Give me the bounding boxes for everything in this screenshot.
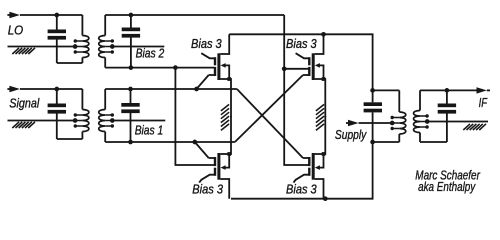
transistor Q3 (lower-left dual-gate MOSFET) bbox=[201, 116, 231, 199]
wire T3 secondary vertical leads bbox=[419, 90, 421, 142]
svg-text:aka Enthalpy: aka Enthalpy bbox=[418, 179, 476, 194]
node C4 bottom on Signal- wire bbox=[128, 140, 133, 145]
svg-text:IF: IF bbox=[479, 96, 488, 110]
capacitor C5 (IF primary tank) bbox=[364, 102, 382, 112]
wire C4 bottom lead crossing Bias 1 wire bbox=[130, 113, 132, 142]
Signal input terminal arrow bbox=[7, 86, 20, 92]
wire Signal input to transformer T2 primary top bbox=[20, 88, 82, 90]
transformer T1 primary winding bbox=[74, 36, 89, 58]
capacitor C1 (LO tank) bbox=[48, 30, 66, 40]
Supply input terminal arrow bbox=[346, 120, 359, 126]
capacitor C4 (Bias 1 / Signal secondary tank) bbox=[121, 103, 139, 113]
ground hatching (IF side) bbox=[463, 124, 486, 130]
ground wire (IF side) bbox=[427, 121, 488, 123]
ground wire (LO side) bbox=[8, 46, 76, 48]
node Signal input / C3 junction bbox=[54, 87, 59, 92]
capacitor C2 (Bias 2 / LO secondary tank) bbox=[122, 28, 140, 38]
node Signal- branch to Q3 gate2 bbox=[192, 140, 197, 145]
node T1 secondary center tap bbox=[110, 44, 115, 49]
wire C6 top lead bbox=[446, 90, 448, 103]
wire IF tank bottom wrap bbox=[373, 141, 400, 143]
node Q4 source on bottom bus bbox=[323, 196, 328, 201]
wire C2 bottom lead crossing Bias 2 wire bbox=[130, 38, 132, 68]
transistor Q4 (lower-right dual-gate MOSFET) bbox=[296, 116, 326, 199]
wire C2 top lead bbox=[130, 15, 132, 28]
LO input terminal arrow bbox=[7, 12, 20, 18]
wire LO tank bottom wrap bbox=[57, 62, 83, 64]
svg-text:Bias 3: Bias 3 bbox=[192, 183, 223, 197]
node T2 secondary center tap bbox=[110, 118, 115, 123]
wire C1 top lead bbox=[56, 15, 58, 30]
wire T2 secondary vertical leads bbox=[104, 89, 106, 142]
capacitor C3 (Signal tank) bbox=[48, 104, 66, 114]
svg-text:Bias 1: Bias 1 bbox=[135, 124, 164, 138]
wire Signal- to cross node bbox=[105, 141, 235, 143]
wire Q1 gate2 diagonal to Signal+ bbox=[197, 75, 209, 89]
transformer T3 primary winding bbox=[391, 112, 406, 134]
node C2 bottom on LO- wire bbox=[129, 65, 134, 70]
wire LO- to Q1 gate1 bbox=[105, 67, 214, 69]
wire LO input to transformer T1 primary top bbox=[20, 14, 82, 16]
wire T2 primary vertical leads bbox=[81, 89, 83, 139]
transistor Q2 (upper-right dual-gate MOSFET) bbox=[296, 34, 326, 117]
svg-text:LO: LO bbox=[8, 23, 24, 37]
wire LO- branch down to Q3 gate1 bbox=[175, 68, 214, 165]
chassis hatching on left source rail bbox=[221, 104, 229, 130]
node T3 secondary center tap bbox=[425, 119, 430, 124]
wire C1 bottom lead crossing LO ground wire bbox=[56, 40, 58, 64]
wire Q3 Bias 3 stub extension bbox=[199, 179, 201, 182]
ground hatching (LO side) bbox=[12, 48, 35, 54]
node T2 primary center tap bbox=[73, 118, 78, 123]
node LO+ to Q2 gate1 bbox=[282, 66, 287, 71]
node top bus to IF tank bbox=[370, 88, 375, 93]
node IF tank bottom junction bbox=[370, 140, 375, 145]
wire IF terminal stub bbox=[487, 89, 490, 91]
wire IF output bbox=[420, 89, 477, 91]
transformer T3 secondary winding bbox=[414, 111, 429, 133]
transistor Q1 (upper-left dual-gate MOSFET) bbox=[201, 34, 231, 117]
wire LO+ top rail to center column bbox=[105, 14, 284, 16]
wire top drain bus bbox=[229, 34, 372, 90]
wire C5 bottom lead crossing Supply wire bbox=[372, 112, 374, 142]
wire Bias 2 from T1 secondary center tap bbox=[112, 46, 164, 48]
svg-text:Bias 3: Bias 3 bbox=[286, 183, 317, 197]
node Signal+ branch to Q1 gate2 bbox=[194, 87, 199, 92]
svg-text:Bias 3: Bias 3 bbox=[191, 37, 222, 51]
ground wire (Signal side) bbox=[8, 120, 76, 122]
svg-text:Signal: Signal bbox=[9, 96, 40, 110]
node Q2 drain on top bus bbox=[321, 32, 326, 37]
svg-text:Bias 3: Bias 3 bbox=[286, 37, 317, 51]
wire Q4 Bias 3 stub extension bbox=[294, 179, 296, 182]
wire cross diagonal Signal+ to Q4 gate2 bbox=[237, 89, 303, 158]
transformer T1 secondary winding bbox=[99, 36, 114, 58]
wire C5 top lead bbox=[372, 90, 374, 102]
wire C3 bottom lead crossing Signal ground wire bbox=[56, 114, 58, 140]
chassis hatching on right source rail bbox=[316, 104, 324, 130]
wire T1 primary vertical leads bbox=[81, 15, 83, 63]
wire Bias 1 from T2 secondary center tap bbox=[112, 120, 165, 122]
node Bias1 capacitor top junction bbox=[128, 87, 133, 92]
svg-text:Supply: Supply bbox=[335, 128, 367, 142]
wire cross diagonal Signal- to Q2 gate2 bbox=[235, 75, 303, 142]
node LO input / C1 junction bbox=[54, 13, 59, 18]
node Bias2 capacitor top junction bbox=[129, 13, 134, 18]
wire Q3 gate2 diagonal to Signal- bbox=[195, 142, 209, 158]
wire C4 top lead bbox=[130, 89, 132, 103]
wire Signal+ to cross node bbox=[105, 88, 237, 90]
node T1 primary center tap bbox=[73, 44, 78, 49]
wire LO+ to Q2 gate1 bbox=[284, 68, 308, 70]
wire T1 secondary vertical leads bbox=[104, 15, 106, 68]
wire Supply to T3 primary center tap bbox=[359, 122, 393, 124]
transformer T2 secondary winding bbox=[99, 110, 114, 132]
wire T3 primary vertical leads bbox=[398, 90, 400, 142]
wire C3 top lead bbox=[56, 89, 58, 104]
node LO- branch to Q3 bbox=[173, 65, 178, 70]
transformer T2 primary winding bbox=[74, 110, 89, 132]
wire Signal tank bottom wrap bbox=[57, 138, 83, 140]
svg-text:Bias 2: Bias 2 bbox=[136, 47, 165, 61]
wire C6 bottom lead crossing IF ground wire bbox=[446, 114, 448, 143]
wire IF secondary bottom wrap bbox=[420, 141, 447, 143]
capacitor C6 (IF output tank) bbox=[438, 104, 456, 114]
ground hatching (Signal side) bbox=[12, 122, 35, 128]
node T3 primary center tap bbox=[390, 121, 395, 126]
wire top bus to T3 primary top bbox=[373, 89, 400, 91]
node IF output / C6 junction bbox=[445, 88, 450, 93]
wire LO+ center column down bbox=[284, 15, 308, 165]
wire bottom source bus bbox=[231, 142, 373, 199]
IF output terminal arrow bbox=[477, 87, 487, 93]
